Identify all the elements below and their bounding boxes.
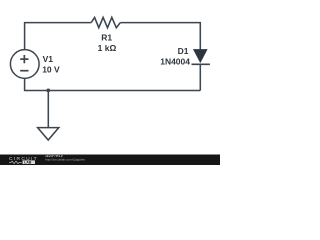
resistor R1	[91, 17, 120, 27]
svg-text:D1: D1	[178, 46, 189, 56]
svg-text:R1: R1	[101, 33, 112, 43]
svg-text:V1: V1	[43, 54, 54, 64]
voltage source V1	[10, 50, 39, 79]
diode D1	[192, 50, 210, 65]
CircuitLab logo: zigzag + LAB	[9, 161, 22, 163]
wire: junction to ground	[47, 91, 49, 128]
svg-text:1N4004: 1N4004	[160, 57, 190, 67]
svg-text:LAB: LAB	[24, 161, 32, 165]
wire: D1 down to bottom-right corner	[199, 64, 201, 90]
wire: bottom rail and up to V1 bottom	[25, 78, 201, 90]
wire: V1 top up and across to R1	[25, 23, 92, 50]
svg-text:http://circuitlab.com/c2gqsbw: http://circuitlab.com/c2gqsbw	[45, 158, 85, 162]
node junction dot	[46, 89, 50, 93]
svg-text:1 kΩ: 1 kΩ	[98, 43, 117, 53]
svg-text:10 V: 10 V	[42, 64, 60, 74]
ground	[38, 128, 59, 140]
watermark bar	[0, 155, 220, 166]
wire: R1 to top-right corner down to D1	[120, 23, 200, 50]
